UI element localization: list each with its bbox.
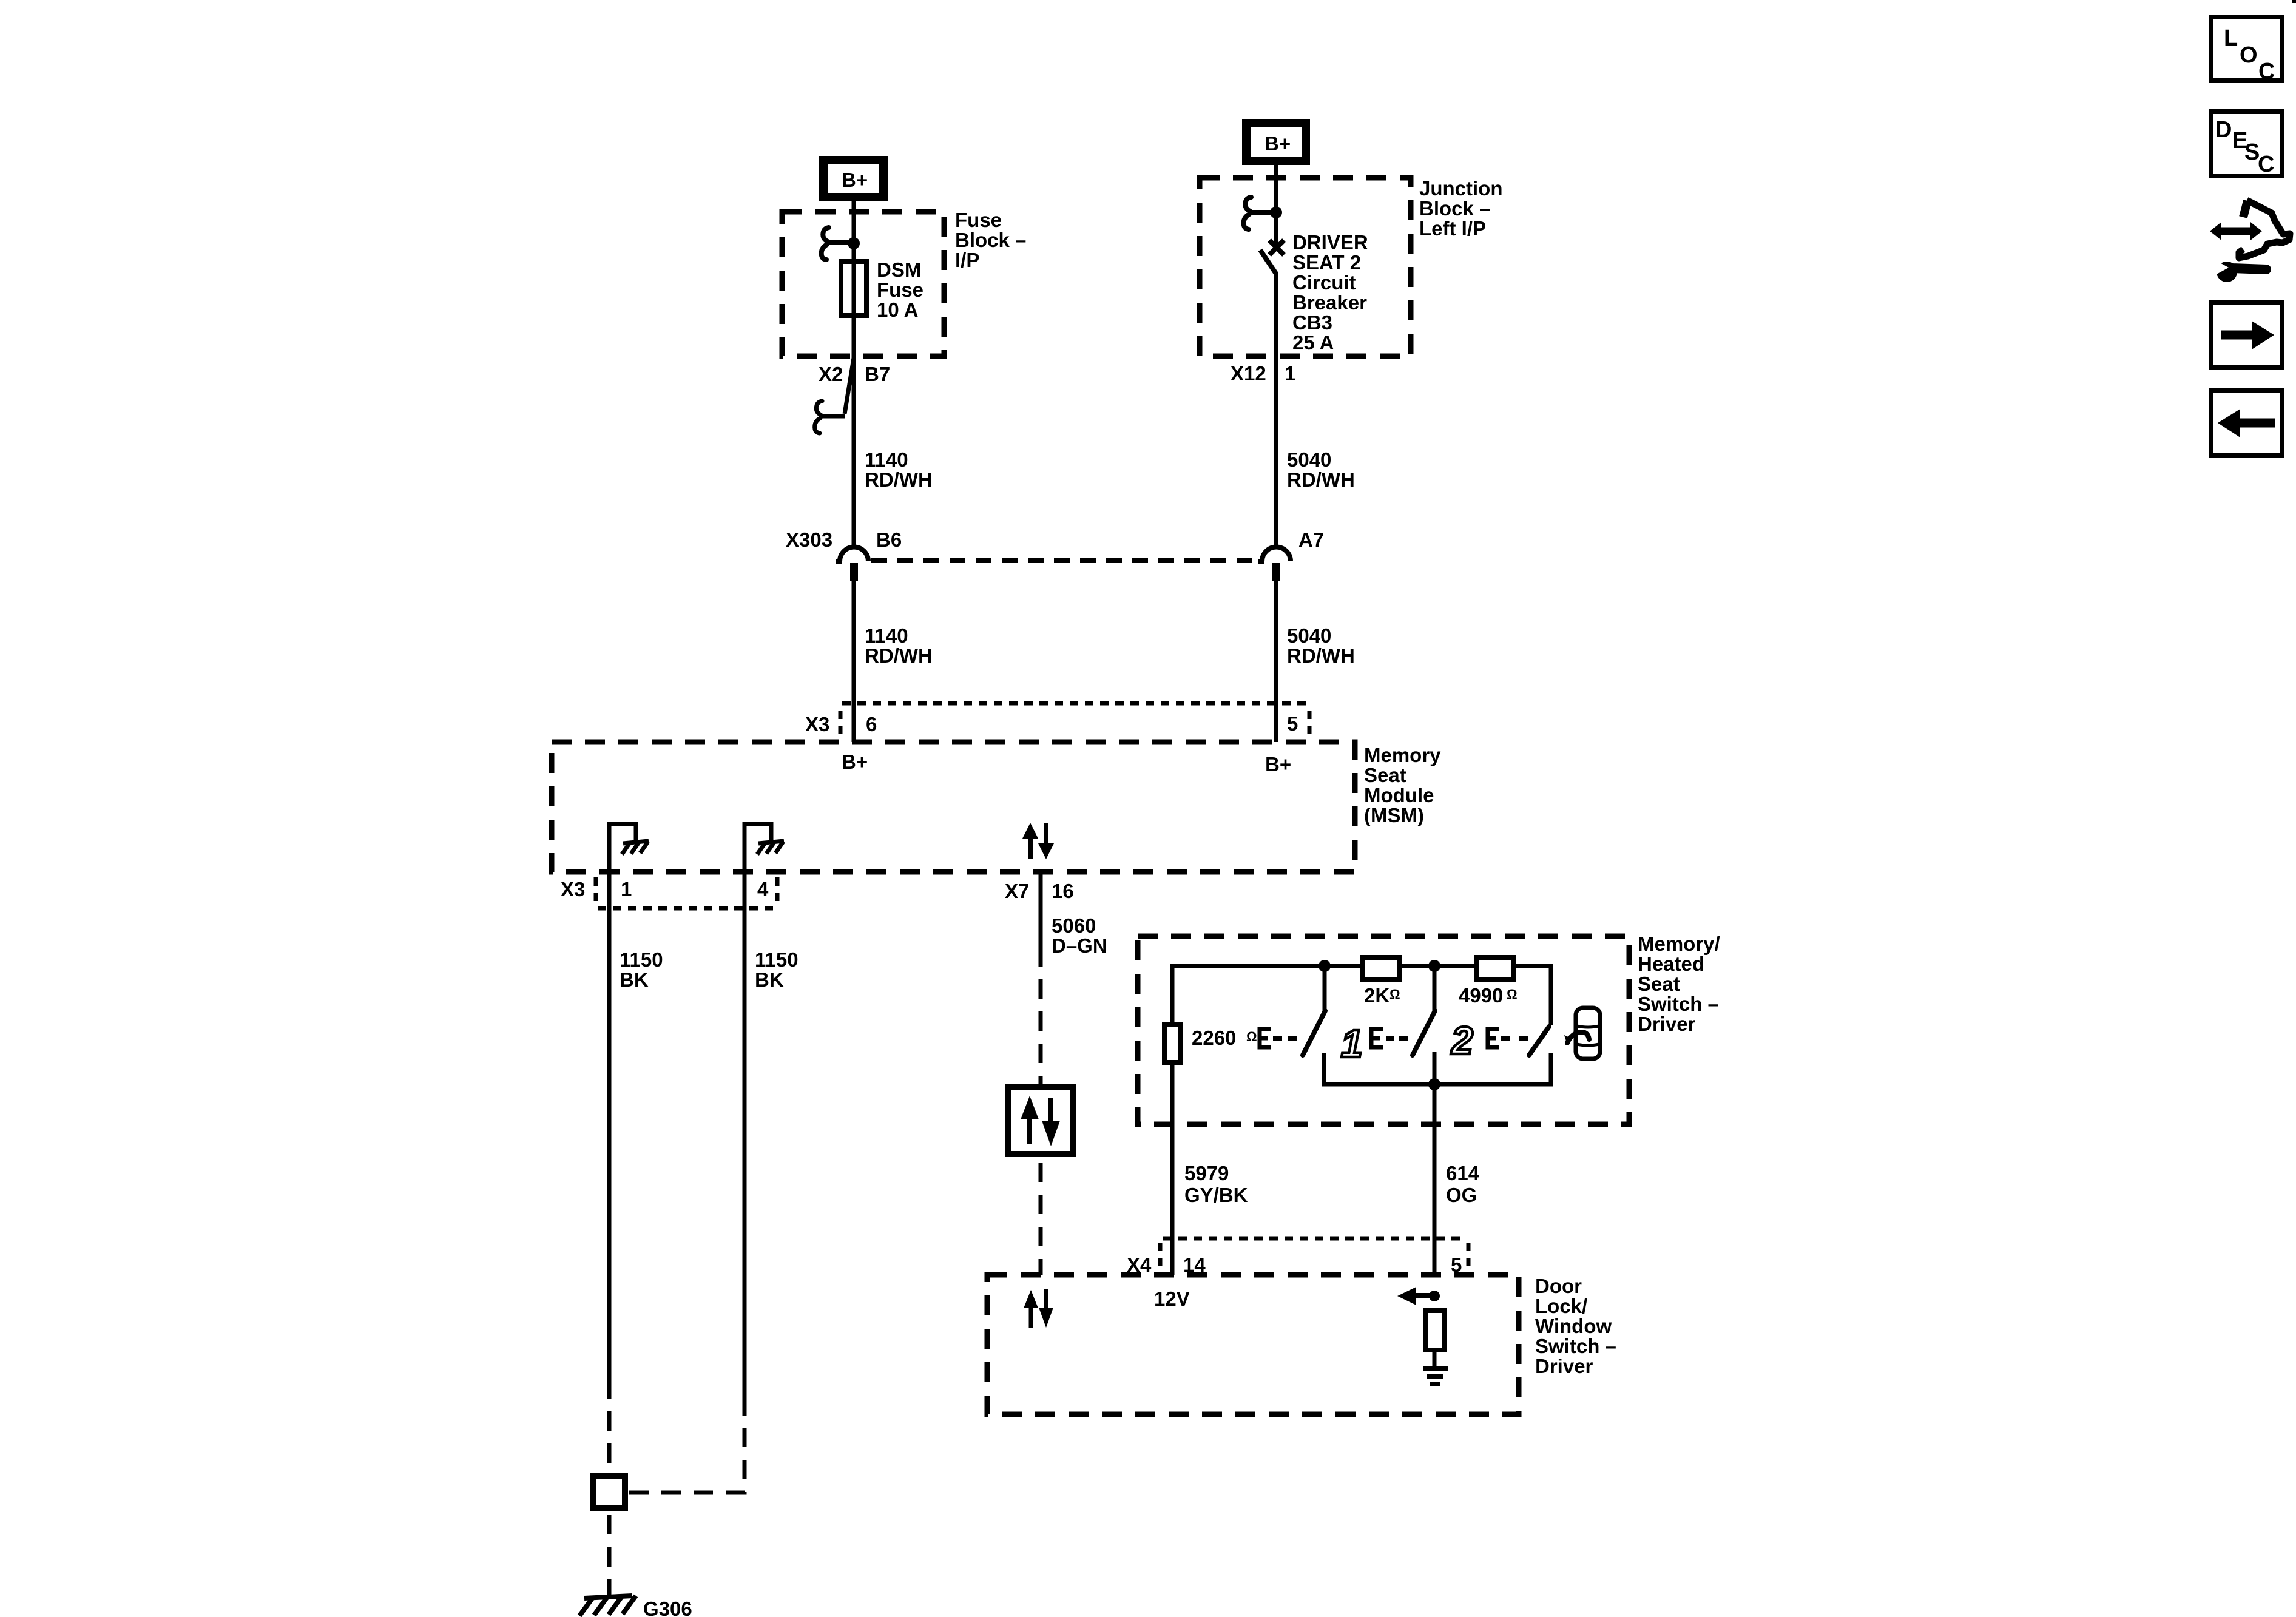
back arrow icon <box>2211 391 2282 456</box>
connector X4 (pins 14 and 5) <box>1163 1237 1467 1241</box>
output wire 614 from switch <box>1433 1052 1437 1275</box>
switch actuator E (left) <box>1260 1029 1271 1047</box>
svg-text:OG: OG <box>1446 1184 1477 1206</box>
fuse DSM 10A <box>852 262 856 356</box>
DESC icon <box>2211 112 2282 176</box>
resistor 2260 ohm <box>1164 1024 1180 1062</box>
svg-text:10 A: 10 A <box>877 299 918 321</box>
svg-text:Ω: Ω <box>1246 1029 1257 1044</box>
resistor in door switch <box>1425 1311 1445 1350</box>
svg-text:Door: Door <box>1535 1275 1582 1297</box>
svg-text:RD/WH: RD/WH <box>865 468 933 491</box>
switch blade B with stub <box>1433 966 1437 1012</box>
node: junction dot B <box>1428 960 1440 972</box>
terminal clip in fuse block <box>827 240 854 245</box>
resistor 4990 ohm <box>1477 957 1514 979</box>
svg-text:Lock/: Lock/ <box>1535 1295 1587 1317</box>
svg-text:X2: X2 <box>819 363 843 385</box>
circuit breaker CB3 25A <box>1269 240 1284 255</box>
svg-text:B+: B+ <box>1265 753 1291 775</box>
svg-text:Driver: Driver <box>1638 1013 1696 1035</box>
power symbol B+ (left) <box>823 160 883 197</box>
svg-text:DRIVER: DRIVER <box>1292 231 1368 254</box>
wire 5040 RD/WH lower <box>1274 580 1278 742</box>
svg-text:BK: BK <box>755 968 784 991</box>
memory/heated seat switch dashed outline <box>1138 936 1629 1124</box>
svg-text:GY/BK: GY/BK <box>1184 1184 1248 1206</box>
svg-text:1140: 1140 <box>865 624 908 647</box>
wire: left B+ feed to fuse block <box>852 197 856 262</box>
svg-text:Heated: Heated <box>1638 953 1704 975</box>
forward arrow icon <box>2211 302 2282 368</box>
svg-text:Driver: Driver <box>1535 1355 1593 1377</box>
svg-text:6: 6 <box>866 713 877 735</box>
svg-text:Ω: Ω <box>1507 987 1518 1002</box>
svg-text:2260: 2260 <box>1192 1027 1236 1049</box>
svg-text:Block –: Block – <box>955 229 1026 251</box>
svg-text:4990: 4990 <box>1459 984 1503 1007</box>
svg-text:A7: A7 <box>1298 528 1324 551</box>
svg-text:RD/WH: RD/WH <box>1287 468 1355 491</box>
male pin B6 <box>850 563 858 581</box>
svg-text:1150: 1150 <box>620 948 663 971</box>
svg-text:X3: X3 <box>561 878 585 900</box>
svg-text:Circuit: Circuit <box>1292 271 1356 294</box>
wire 5060 D-GN from X7 <box>1039 872 1043 967</box>
power symbol B+ (right) <box>1246 123 1306 161</box>
wire 1150 BK (left) <box>607 872 612 1399</box>
ground G306 <box>584 1596 632 1598</box>
svg-text:RD/WH: RD/WH <box>865 644 933 667</box>
wire 1150 BK (right) <box>743 872 747 1416</box>
wire below 2260 resistor / 5979 feed <box>1170 1062 1175 1275</box>
splice S <box>593 1476 625 1508</box>
memory seat module (MSM) dashed outline <box>552 742 1355 872</box>
svg-text:Fuse: Fuse <box>877 279 923 301</box>
ground symbol (internal, right) <box>758 841 784 843</box>
svg-text:Module: Module <box>1364 784 1434 806</box>
svg-text:Breaker: Breaker <box>1292 291 1367 314</box>
svg-text:5040: 5040 <box>1287 624 1331 647</box>
wrench <box>2232 268 2266 269</box>
svg-text:Switch –: Switch – <box>1638 993 1719 1015</box>
svg-text:5: 5 <box>1287 712 1298 735</box>
connector X3 (top row, pins 6 and 5) <box>842 701 1308 706</box>
wire 1140 RD/WH lower <box>852 580 856 742</box>
svg-text:2K: 2K <box>1364 984 1389 1007</box>
diagnostic pointer icon <box>2243 201 2247 217</box>
svg-text:C: C <box>2258 152 2274 177</box>
data link symbol (boxed arrows) <box>1008 1087 1073 1154</box>
male pin A7 <box>1272 563 1280 581</box>
svg-text:12V: 12V <box>1154 1288 1190 1310</box>
svg-text:L: L <box>2224 25 2238 51</box>
svg-text:B6: B6 <box>876 528 902 551</box>
seat icon <box>1576 1008 1600 1059</box>
switch blade A with stub <box>1323 966 1327 1012</box>
data arrows inside MSM at X7 <box>1028 835 1033 859</box>
resistor 2K ohm <box>1363 957 1400 979</box>
svg-text:16: 16 <box>1052 880 1074 902</box>
svg-text:DSM: DSM <box>877 258 921 281</box>
wire: right B+ feed to junction block <box>1274 160 1278 245</box>
dashed harness jumper X303 to A7 <box>871 558 1261 563</box>
svg-text:Left I/P: Left I/P <box>1419 217 1486 240</box>
dashed wire to splice (left) <box>607 1399 612 1476</box>
svg-text:614: 614 <box>1446 1162 1480 1184</box>
dashed wire splice to G306 <box>607 1508 612 1596</box>
dashed wire to door switch <box>1039 1154 1043 1275</box>
svg-text:1150: 1150 <box>755 948 799 971</box>
svg-text:RD/WH: RD/WH <box>1287 644 1355 667</box>
svg-text:1: 1 <box>621 878 632 900</box>
terminal clip in junction block <box>1249 210 1276 215</box>
terminal clip at X2 B7 <box>845 358 854 414</box>
svg-text:X12: X12 <box>1231 362 1266 385</box>
junction block - left I/P dashed outline <box>1200 178 1411 356</box>
svg-text:X7: X7 <box>1005 880 1029 902</box>
svg-text:5979: 5979 <box>1184 1162 1229 1184</box>
svg-text:25 A: 25 A <box>1292 331 1334 354</box>
svg-text:1: 1 <box>1341 1022 1363 1065</box>
node: junction dot on 614 <box>1429 1291 1440 1301</box>
svg-text:I/P: I/P <box>955 249 979 271</box>
svg-text:Window: Window <box>1535 1315 1612 1337</box>
ground symbol in door switch <box>1423 1366 1448 1371</box>
svg-text:5060: 5060 <box>1052 914 1096 937</box>
svg-text:Seat: Seat <box>1364 764 1406 786</box>
switch actuator E (right) <box>1488 1029 1499 1047</box>
top bus wire <box>1172 966 1551 1025</box>
svg-text:B+: B+ <box>842 751 868 773</box>
svg-text:Fuse: Fuse <box>955 209 1002 231</box>
svg-text:1140: 1140 <box>865 448 908 471</box>
fuse block - I/P dashed outline <box>782 212 944 356</box>
node: junction dot A <box>1319 960 1331 972</box>
svg-text:BK: BK <box>620 968 649 991</box>
svg-text:Junction: Junction <box>1419 177 1503 200</box>
svg-text:Switch –: Switch – <box>1535 1335 1616 1357</box>
corner mark <box>2292 0 2296 3</box>
node: junction dot on bottom bus <box>1428 1078 1440 1090</box>
svg-text:X3: X3 <box>805 713 829 735</box>
svg-text:Memory: Memory <box>1364 744 1441 766</box>
LOC icon <box>2211 17 2282 80</box>
svg-text:B+: B+ <box>842 169 868 191</box>
dashed wire to splice (right) <box>627 1416 745 1493</box>
svg-text:C: C <box>2258 59 2275 84</box>
double arrow <box>2220 228 2252 235</box>
svg-text:(MSM): (MSM) <box>1364 804 1424 826</box>
data arrows inside door switch <box>1029 1305 1033 1328</box>
svg-text:2: 2 <box>1451 1019 1473 1062</box>
svg-text:Ω: Ω <box>1389 987 1400 1002</box>
svg-text:Seat: Seat <box>1638 973 1680 995</box>
svg-text:D: D <box>2215 117 2232 143</box>
node: junction dot in junction block <box>1270 206 1282 218</box>
ground branch 1 inside MSM <box>609 824 636 872</box>
svg-text:X303: X303 <box>786 528 832 551</box>
svg-text:G306: G306 <box>643 1598 692 1617</box>
door lock/window switch dashed outline <box>987 1275 1519 1414</box>
wire 1140 RD/WH upper <box>852 356 856 547</box>
svg-text:Block –: Block – <box>1419 197 1490 220</box>
svg-text:5040: 5040 <box>1287 448 1331 471</box>
signal arrow on 614 input <box>1415 1293 1434 1298</box>
bottom bus of switch <box>1324 1053 1551 1084</box>
node: junction dot in fuse block <box>848 237 860 249</box>
ground symbol (internal, left) <box>623 841 649 843</box>
svg-text:D–GN: D–GN <box>1052 934 1107 957</box>
svg-text:Memory/: Memory/ <box>1638 933 1720 955</box>
svg-text:4: 4 <box>757 878 769 900</box>
svg-text:CB3: CB3 <box>1292 311 1332 334</box>
svg-text:SEAT 2: SEAT 2 <box>1292 251 1361 274</box>
svg-text:B7: B7 <box>865 363 890 385</box>
svg-text:O: O <box>2240 42 2258 68</box>
switch actuator E (middle) <box>1371 1029 1383 1047</box>
wire 5040 RD/WH upper <box>1274 356 1278 547</box>
svg-text:1: 1 <box>1285 362 1295 385</box>
svg-text:B+: B+ <box>1264 132 1291 155</box>
switch blade C <box>1529 1027 1549 1055</box>
ground branch 2 inside MSM <box>745 824 771 872</box>
